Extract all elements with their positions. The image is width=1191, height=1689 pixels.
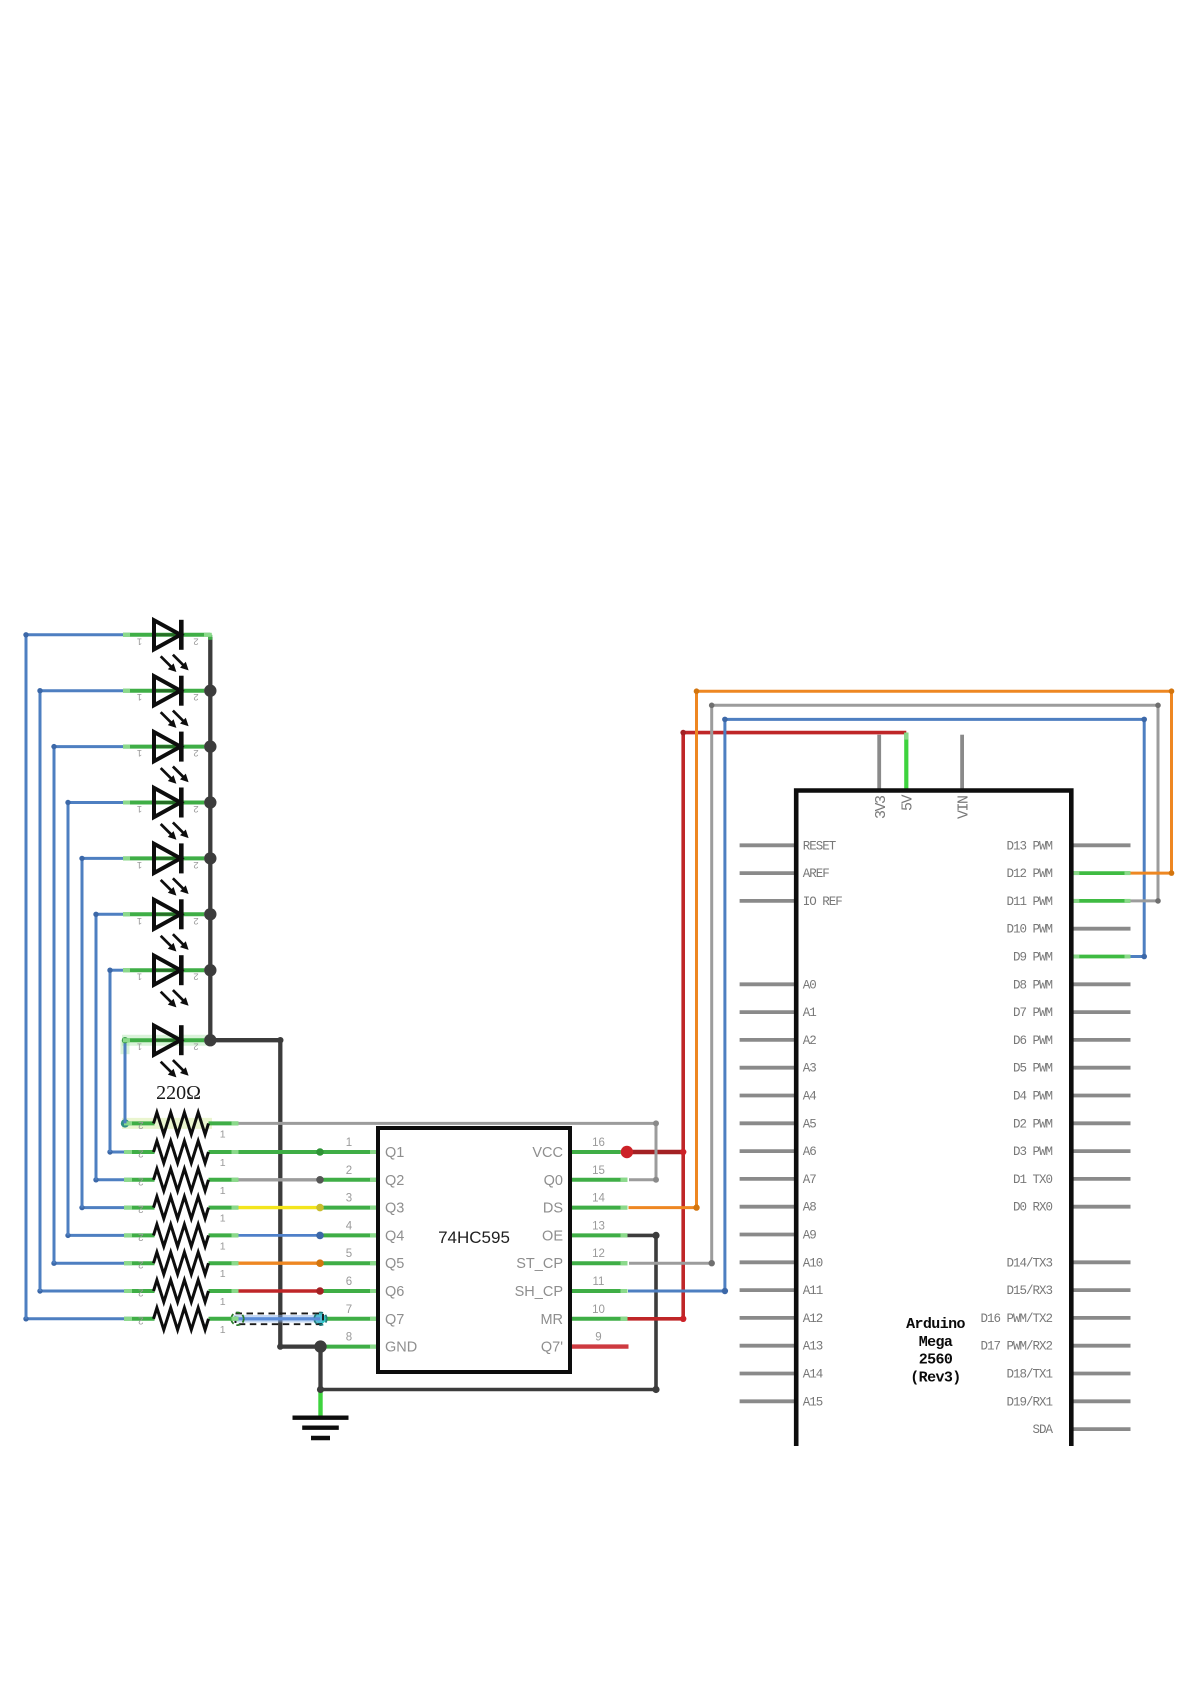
svg-text:A9: A9 <box>803 1229 817 1243</box>
svg-text:5: 5 <box>346 1248 352 1260</box>
svg-text:12: 12 <box>592 1248 605 1260</box>
svg-text:Q5: Q5 <box>385 1256 404 1272</box>
svg-text:GND: GND <box>385 1340 417 1356</box>
svg-text:2: 2 <box>193 803 198 814</box>
svg-text:D0 RX0: D0 RX0 <box>1013 1201 1053 1215</box>
svg-text:VIN: VIN <box>956 796 973 819</box>
svg-text:D9 PWM: D9 PWM <box>1013 951 1053 965</box>
svg-text:D3 PWM: D3 PWM <box>1013 1145 1053 1159</box>
svg-text:1: 1 <box>137 859 142 870</box>
svg-text:RESET: RESET <box>803 839 837 853</box>
svg-text:1: 1 <box>220 1157 226 1169</box>
svg-text:15: 15 <box>592 1165 605 1177</box>
svg-text:D4 PWM: D4 PWM <box>1013 1090 1053 1104</box>
svg-text:2: 2 <box>193 971 198 982</box>
svg-text:2: 2 <box>138 1314 144 1325</box>
svg-text:13: 13 <box>592 1220 605 1232</box>
svg-text:4: 4 <box>346 1220 353 1232</box>
svg-text:A15: A15 <box>803 1395 823 1409</box>
svg-text:6: 6 <box>346 1276 352 1288</box>
svg-text:D18/TX1: D18/TX1 <box>1006 1368 1052 1382</box>
svg-text:AREF: AREF <box>803 867 830 881</box>
svg-text:2: 2 <box>193 1041 198 1052</box>
svg-text:A0: A0 <box>803 978 817 992</box>
svg-text:D10 PWM: D10 PWM <box>1006 923 1052 937</box>
svg-text:A5: A5 <box>803 1117 817 1131</box>
svg-text:Q4: Q4 <box>385 1228 404 1244</box>
svg-text:1: 1 <box>220 1324 226 1336</box>
svg-text:(Rev3): (Rev3) <box>910 1369 960 1386</box>
svg-text:1: 1 <box>137 691 142 702</box>
svg-text:D15/RX3: D15/RX3 <box>1006 1284 1052 1298</box>
svg-text:10: 10 <box>592 1304 605 1316</box>
svg-text:A2: A2 <box>803 1034 817 1048</box>
svg-text:Q7: Q7 <box>385 1312 404 1328</box>
svg-text:1: 1 <box>220 1296 226 1308</box>
svg-text:Arduino: Arduino <box>906 1316 965 1333</box>
svg-text:D19/RX1: D19/RX1 <box>1006 1395 1052 1409</box>
svg-text:2: 2 <box>193 747 198 758</box>
svg-text:A7: A7 <box>803 1173 817 1187</box>
svg-text:2: 2 <box>138 1119 144 1130</box>
svg-text:A3: A3 <box>803 1062 817 1076</box>
svg-text:2: 2 <box>193 691 198 702</box>
svg-text:11: 11 <box>593 1276 605 1288</box>
svg-text:A8: A8 <box>803 1201 817 1215</box>
svg-text:1: 1 <box>220 1268 226 1280</box>
svg-text:1: 1 <box>137 971 142 982</box>
svg-text:Q0: Q0 <box>544 1173 563 1189</box>
svg-text:1: 1 <box>137 1041 142 1052</box>
svg-text:VCC: VCC <box>532 1145 563 1161</box>
svg-text:5V: 5V <box>900 794 917 811</box>
svg-text:1: 1 <box>137 803 142 814</box>
svg-text:D17 PWM/RX2: D17 PWM/RX2 <box>980 1340 1052 1354</box>
svg-text:SH_CP: SH_CP <box>515 1284 563 1300</box>
svg-text:A12: A12 <box>803 1312 823 1326</box>
svg-text:Q3: Q3 <box>385 1201 404 1217</box>
svg-text:D12 PWM: D12 PWM <box>1006 867 1052 881</box>
svg-text:220Ω: 220Ω <box>156 1082 201 1104</box>
svg-text:1: 1 <box>220 1185 226 1197</box>
svg-text:7: 7 <box>346 1304 352 1316</box>
svg-text:2: 2 <box>138 1287 144 1298</box>
svg-text:74HC595: 74HC595 <box>438 1228 510 1247</box>
svg-text:DS: DS <box>543 1201 563 1217</box>
svg-text:A11: A11 <box>803 1284 823 1298</box>
svg-text:2: 2 <box>138 1259 144 1270</box>
svg-text:A14: A14 <box>803 1368 823 1382</box>
svg-text:D2 PWM: D2 PWM <box>1013 1117 1053 1131</box>
svg-text:1: 1 <box>220 1240 226 1252</box>
svg-text:2: 2 <box>193 859 198 870</box>
svg-text:D16 PWM/TX2: D16 PWM/TX2 <box>980 1312 1052 1326</box>
svg-text:SDA: SDA <box>1032 1423 1053 1437</box>
svg-text:MR: MR <box>540 1312 563 1328</box>
svg-text:3: 3 <box>346 1193 352 1205</box>
svg-text:2: 2 <box>138 1148 144 1159</box>
svg-text:1: 1 <box>220 1213 226 1225</box>
svg-text:2: 2 <box>138 1175 144 1186</box>
svg-text:Mega: Mega <box>919 1334 953 1351</box>
svg-text:2: 2 <box>138 1231 144 1242</box>
svg-text:2560: 2560 <box>919 1352 953 1369</box>
svg-text:IO REF: IO REF <box>803 895 843 909</box>
svg-text:D8 PWM: D8 PWM <box>1013 978 1053 992</box>
svg-text:2: 2 <box>346 1165 352 1177</box>
svg-text:ST_CP: ST_CP <box>516 1256 563 1272</box>
svg-text:A10: A10 <box>803 1256 823 1270</box>
svg-text:D13 PWM: D13 PWM <box>1006 839 1052 853</box>
svg-text:Q2: Q2 <box>385 1173 404 1189</box>
svg-text:D6 PWM: D6 PWM <box>1013 1034 1053 1048</box>
svg-text:D7 PWM: D7 PWM <box>1013 1006 1053 1020</box>
svg-text:1: 1 <box>137 747 142 758</box>
svg-text:A6: A6 <box>803 1145 817 1159</box>
svg-text:D11 PWM: D11 PWM <box>1006 895 1052 909</box>
svg-text:1: 1 <box>220 1128 226 1140</box>
svg-text:8: 8 <box>346 1332 352 1344</box>
svg-text:D5 PWM: D5 PWM <box>1013 1062 1053 1076</box>
svg-text:D14/TX3: D14/TX3 <box>1006 1256 1052 1270</box>
svg-text:1: 1 <box>137 915 142 926</box>
svg-text:1: 1 <box>346 1137 352 1149</box>
svg-text:3V3: 3V3 <box>873 795 890 819</box>
svg-text:1: 1 <box>137 635 142 646</box>
svg-text:Q6: Q6 <box>385 1284 404 1300</box>
svg-text:A4: A4 <box>803 1090 817 1104</box>
svg-text:Q7': Q7' <box>541 1340 563 1356</box>
svg-text:A1: A1 <box>803 1006 817 1020</box>
svg-text:14: 14 <box>592 1193 605 1205</box>
svg-text:D1 TX0: D1 TX0 <box>1013 1173 1053 1187</box>
svg-text:9: 9 <box>595 1332 601 1344</box>
svg-text:2: 2 <box>138 1203 144 1214</box>
svg-text:2: 2 <box>193 635 198 646</box>
svg-text:OE: OE <box>542 1228 563 1244</box>
svg-text:A13: A13 <box>803 1340 823 1354</box>
svg-text:2: 2 <box>193 915 198 926</box>
svg-text:Q1: Q1 <box>385 1145 404 1161</box>
svg-text:16: 16 <box>592 1137 605 1149</box>
